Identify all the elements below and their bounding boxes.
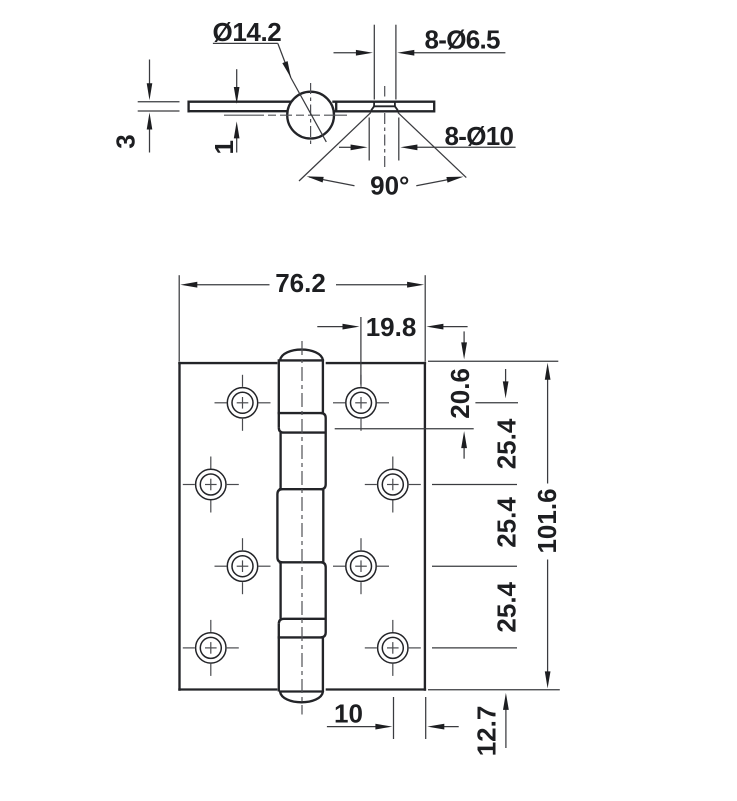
hinge pin centerline (front view)	[301, 341, 303, 715]
countersink flank line right (90 deg cone)	[398, 113, 466, 178]
screw hole row1 right (Ø6.5 csk Ø10)	[333, 375, 389, 431]
svg-text:101.6: 101.6	[532, 488, 562, 553]
screw hole row3 right (Ø6.5 csk Ø10)	[333, 538, 389, 594]
leader and label Ø14.2 (pin boss diameter)	[213, 17, 327, 142]
extension line hole row1	[475, 402, 518, 404]
screw hole centerline (lower)	[384, 113, 386, 168]
vertical centerline of pin boss	[310, 83, 312, 145]
screw hole row4 right (Ø6.5 csk Ø10)	[365, 620, 421, 676]
knuckle segment 1 (top) with dome cap	[279, 350, 323, 428]
knuckle joint line 3	[279, 561, 324, 563]
svg-text:76.2: 76.2	[275, 268, 326, 298]
svg-text:1: 1	[209, 140, 239, 154]
svg-text:12.7: 12.7	[472, 706, 502, 757]
svg-text:Ø14.2: Ø14.2	[213, 17, 282, 47]
knuckle white background	[277, 352, 325, 702]
knuckle segment 3 (middle, offset left)	[277, 489, 323, 562]
svg-text:25.4: 25.4	[492, 581, 522, 632]
svg-text:8-Ø10: 8-Ø10	[445, 121, 514, 151]
knuckle segment 2 edges	[279, 433, 281, 490]
knuckle segment 5 (bottom) with dome cap	[279, 624, 323, 703]
bearing ring upper (wider, rounded)	[279, 413, 326, 489]
screw hole row2 left (Ø6.5 csk Ø10)	[183, 457, 239, 513]
dimension 8-Ø6.5 (screw hole diameter)	[334, 24, 506, 99]
left hinge leaf (cross-section)	[188, 101, 292, 113]
dimension 76.2 (leaf width)	[179, 268, 425, 362]
svg-text:90°: 90°	[370, 171, 409, 201]
countersunk screw hole (section)	[371, 103, 398, 111]
dimension 10 (hole column to edge, bottom)	[327, 697, 459, 739]
right hinge leaf (cross-section)	[332, 101, 434, 113]
svg-text:10: 10	[334, 699, 363, 729]
bearing ring lower (wider, rounded)	[279, 619, 326, 624]
knuckle segment 4 edges	[281, 562, 326, 637]
screw hole centerline (upper)	[384, 86, 386, 97]
extension line bottom edge (right)	[428, 689, 560, 691]
svg-text:8-Ø6.5: 8-Ø6.5	[425, 24, 501, 54]
extension line hole row4	[432, 647, 517, 649]
extension line hole row2	[432, 484, 517, 486]
dimension 101.6 (leaf height)	[532, 363, 562, 689]
knuckle cutout edge extension line	[335, 428, 474, 430]
horizontal centerline of pin	[224, 114, 347, 116]
knuckle joint line 2	[279, 488, 324, 490]
svg-text:25.4: 25.4	[492, 497, 522, 548]
screw hole row2 right (Ø6.5 csk Ø10)	[365, 457, 421, 513]
screw hole row4 left (Ø6.5 csk Ø10)	[183, 620, 239, 676]
svg-text:3: 3	[111, 134, 141, 148]
dimension 90deg (countersink angle)	[307, 171, 464, 201]
hinge leaf outline (front view)	[178, 362, 426, 691]
svg-text:25.4: 25.4	[492, 418, 522, 469]
dimension 1 (pin offset)	[209, 69, 240, 154]
screw hole row1 left (Ø6.5 csk Ø10)	[215, 375, 271, 431]
countersink flank line left (90 deg cone)	[299, 113, 371, 181]
svg-text:20.6: 20.6	[445, 368, 475, 419]
knuckle joint line 4	[278, 636, 323, 638]
dimension 19.8 (hole column to edge)	[317, 312, 467, 385]
dimension 3 (leaf thickness)	[111, 60, 180, 153]
extension line top edge (right)	[428, 360, 558, 362]
dimension chain 25.4 (hole row spacing)	[492, 369, 522, 633]
dimension 20.6 (top edge to cutout)	[445, 331, 475, 458]
dimension 8-Ø10 (countersink diameter)	[339, 118, 516, 161]
screw hole row3 left (Ø6.5 csk Ø10)	[215, 538, 271, 594]
knuckle joint line 1	[278, 412, 323, 414]
svg-text:19.8: 19.8	[366, 312, 417, 342]
extension line hole row3	[432, 565, 517, 567]
hinge knuckle circle (pin boss)	[287, 92, 334, 139]
dimension 12.7 (row4 to bottom edge)	[472, 693, 509, 756]
